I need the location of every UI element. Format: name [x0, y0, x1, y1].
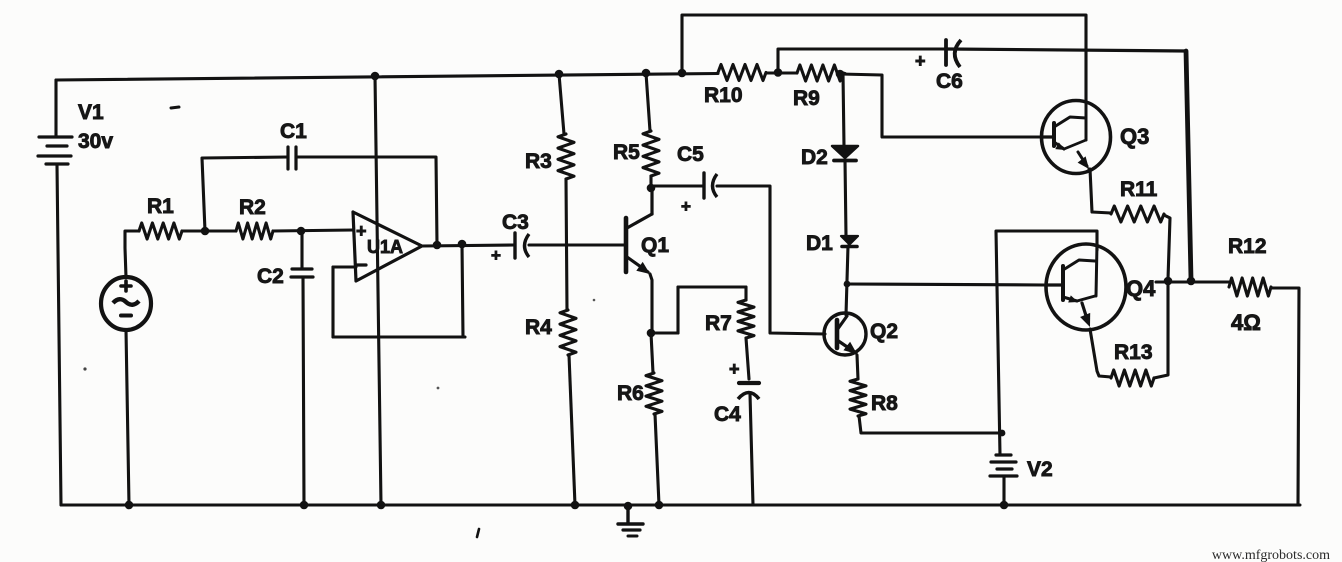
label C1 — [280, 120, 307, 143]
stray dash mark — [171, 107, 179, 108]
svg-text:R12: R12 — [1228, 235, 1267, 258]
capacitor C3 polarized — [515, 233, 529, 258]
junction V2 bottom rail — [1000, 501, 1009, 510]
label R7 — [705, 312, 732, 335]
label C3 — [502, 211, 529, 234]
wire vertical rail through opamp column — [375, 76, 381, 505]
wire Q2 emitter to R8 — [857, 355, 858, 379]
node junction R1/R2/C1 — [201, 227, 210, 236]
node D1-Q2 tap to Q4 base — [844, 281, 851, 288]
svg-text:C1: C1 — [280, 120, 307, 143]
wire C1 to output node — [296, 157, 437, 244]
label V2 — [1027, 458, 1053, 481]
resistor R12 — [1229, 278, 1271, 296]
wire tap to Q4 base — [847, 284, 1045, 285]
resistor R8 — [850, 379, 866, 416]
wire junction to R2 — [205, 229, 236, 232]
label C4 — [714, 403, 741, 426]
wire junction down to D2 — [843, 74, 844, 146]
battery V1 — [38, 137, 72, 164]
resistor R1 — [139, 223, 182, 239]
label C6 — [936, 70, 963, 93]
wire junction up to C1 — [202, 157, 288, 231]
wire left supply vertical lower — [57, 165, 61, 505]
junction source-bottom rail — [125, 501, 134, 510]
junction top rail opamp column — [371, 72, 380, 81]
wire top rail to R3 — [559, 74, 564, 134]
junction topmost line tap — [678, 69, 687, 78]
wire C4 to bottom rail — [750, 394, 753, 505]
node R8/V2 junction — [999, 430, 1006, 437]
wire R12 to right vertical — [1271, 288, 1299, 504]
label R13 — [1114, 341, 1153, 364]
wire source to bottom rail — [126, 330, 129, 505]
wire C3 to Q1 base — [529, 243, 624, 246]
wire R4 to bottom rail — [569, 355, 575, 505]
resistor R10 — [718, 65, 766, 81]
svg-text:+: + — [491, 246, 501, 265]
svg-text:R8: R8 — [871, 392, 898, 415]
wire C6 line left — [778, 49, 948, 72]
junction R4 bottom rail — [571, 501, 580, 510]
svg-text:Q2: Q2 — [870, 320, 898, 343]
junction top rail R3 column — [555, 70, 564, 79]
svg-text:R5: R5 — [613, 141, 640, 164]
node junction R2/C2 — [297, 227, 306, 236]
svg-text:30v: 30v — [78, 130, 113, 153]
svg-text:U1A: U1A — [367, 237, 403, 257]
junction R6 bottom rail — [655, 501, 664, 510]
wire R5 to collector node — [649, 176, 652, 186]
label C4 plus polarity — [729, 359, 740, 379]
junction C2-bottom rail — [300, 501, 309, 510]
svg-text:www.mfgrobots.com: www.mfgrobots.com — [1212, 548, 1330, 562]
label C2 — [257, 265, 284, 288]
wire topmost line — [682, 15, 1086, 102]
wire emitter node to R6 — [651, 333, 653, 373]
label R9 — [793, 87, 820, 110]
svg-text:C3: C3 — [502, 211, 529, 234]
wire V2 to Q4 collector — [996, 231, 1097, 455]
resistor R3 — [558, 134, 574, 179]
wire Q1 emitter down — [650, 274, 652, 331]
transistor Q3 — [1041, 101, 1111, 174]
wire right thick vertical — [1186, 51, 1191, 279]
wire top supply rail left segment — [56, 74, 718, 81]
node R11/R13 junction — [1164, 277, 1173, 286]
label R12 — [1228, 235, 1267, 258]
wire collector node to C5 — [651, 184, 703, 187]
wire bottom ground rail — [61, 504, 1300, 507]
wire top rail segment right of R9 — [843, 71, 845, 75]
resistor R9 — [797, 65, 843, 81]
wire top rail to R5 — [646, 73, 650, 131]
stray speck near R4 — [593, 299, 596, 302]
AC signal source VS — [101, 277, 151, 330]
wire from source to R1 — [125, 231, 139, 277]
wire R13 to node — [1154, 283, 1168, 378]
svg-text:R3: R3 — [525, 150, 552, 173]
label C5 plus polarity — [681, 197, 691, 216]
node junction R10/R9 C6 tap — [774, 68, 783, 77]
svg-text:C2: C2 — [257, 265, 284, 288]
junction ground stub — [624, 502, 633, 511]
label D2 — [801, 146, 828, 169]
wire V2 to bottom rail — [1002, 476, 1005, 505]
wire D1 to Q2 collector — [846, 246, 848, 315]
svg-text:C6: C6 — [936, 70, 963, 93]
svg-text:C5: C5 — [677, 143, 704, 166]
label C6 plus polarity — [915, 51, 926, 71]
wire R11 to node — [1164, 215, 1170, 279]
watermark www.mfgrobots.com — [1212, 548, 1330, 562]
stray speck mid — [437, 387, 440, 390]
node junction R9 right — [836, 70, 845, 79]
wire up to R7 line — [676, 287, 679, 333]
wire C2 to bottom rail — [303, 277, 304, 505]
label 30v value of V1 — [78, 130, 113, 153]
resistor R4 — [560, 310, 576, 355]
svg-text:R1: R1 — [147, 195, 174, 218]
node C1 junction on output — [433, 241, 442, 250]
label R4 — [525, 316, 552, 339]
junction bottom rail opamp column — [377, 501, 386, 510]
transistor Q4 — [1045, 244, 1126, 330]
battery V2 — [990, 455, 1017, 476]
node C6-line junction — [1187, 277, 1196, 286]
label R6 — [617, 382, 644, 405]
svg-text:R6: R6 — [617, 382, 644, 405]
label R3 — [525, 150, 552, 173]
op-amp U1A — [353, 212, 422, 281]
node Q1 emitter junction — [647, 329, 656, 338]
label Q3 — [1120, 124, 1149, 149]
resistor R2 — [236, 223, 273, 239]
wire feedback left vertical — [331, 267, 334, 337]
node Q1 collector — [647, 184, 656, 193]
transistor Q1 — [626, 188, 652, 274]
diode D1 — [841, 236, 858, 247]
capacitor C5 polarized — [704, 173, 717, 198]
wire C6 line right — [948, 49, 1186, 51]
svg-text:R2: R2 — [239, 196, 266, 219]
wire R7 to C4 — [746, 338, 749, 379]
wire junction down to C2 — [300, 231, 303, 269]
wire R9 junction to Q3 base path — [840, 74, 1041, 137]
label Q1 — [641, 234, 669, 257]
wire node to R12 — [1156, 280, 1229, 283]
wire R7 top lead — [744, 287, 747, 300]
label R1 — [147, 195, 174, 218]
label D1 — [806, 232, 833, 255]
wire top rail segment between R10 and R9 — [766, 71, 797, 74]
wire left supply vertical — [54, 80, 57, 136]
resistor R5 — [643, 131, 659, 176]
resistor R13 — [1111, 370, 1154, 386]
svg-text:D2: D2 — [801, 146, 828, 169]
capacitor C6 polarized — [946, 40, 961, 67]
wire R3 to R4 — [566, 179, 567, 310]
resistor R7 — [738, 300, 754, 338]
label Q2 — [870, 320, 898, 343]
svg-text:Q3: Q3 — [1120, 124, 1149, 149]
svg-text:V2: V2 — [1027, 458, 1053, 481]
node feedback junction on output — [458, 240, 467, 249]
wire feedback bottom — [333, 335, 465, 338]
svg-text:+: + — [356, 221, 367, 241]
ground symbol — [618, 506, 643, 536]
svg-text:D1: D1 — [806, 232, 833, 255]
capacitor C2 — [291, 269, 313, 277]
diode D2 — [832, 146, 858, 161]
svg-text:R4: R4 — [525, 316, 552, 339]
wire D2 to D1 — [845, 160, 846, 236]
svg-text:C4: C4 — [714, 403, 741, 426]
label R8 — [871, 392, 898, 415]
svg-text:R7: R7 — [705, 312, 732, 335]
svg-text:R11: R11 — [1120, 178, 1158, 201]
svg-text:+: + — [681, 197, 691, 216]
wire feedback right vertical — [462, 244, 463, 337]
wire R6 to bottom rail — [655, 414, 659, 505]
svg-text:Q1: Q1 — [641, 234, 669, 257]
wire C5 to Q2 base — [717, 186, 825, 334]
capacitor C1 — [288, 147, 296, 169]
label R2 — [239, 196, 266, 219]
stray speck left — [83, 367, 86, 370]
wire Q4 emitter to R13 — [1090, 329, 1111, 377]
wire emitter node right — [651, 331, 678, 334]
wire R8 to V2 top — [859, 416, 1002, 433]
junction top rail R5 column — [642, 69, 651, 78]
svg-text:R10: R10 — [704, 84, 743, 107]
wire R2 to opamp noninverting input — [273, 230, 353, 231]
label R5 — [613, 141, 640, 164]
wire to R7 top — [678, 285, 746, 288]
transistor Q2 — [824, 313, 866, 355]
svg-text:+: + — [915, 51, 926, 71]
wire inverting input feedback stub — [333, 265, 356, 268]
svg-text:Q4: Q4 — [1126, 276, 1156, 301]
capacitor C4 polarized — [738, 383, 759, 399]
svg-text:R13: R13 — [1114, 341, 1153, 364]
label R11 — [1120, 178, 1158, 201]
svg-text:+: + — [729, 359, 740, 379]
label R10 — [704, 84, 743, 107]
stray apostrophe mark — [477, 529, 479, 537]
wire opamp output — [422, 245, 514, 246]
label C5 — [677, 143, 704, 166]
svg-text:R9: R9 — [793, 87, 820, 110]
svg-text:V1: V1 — [78, 101, 104, 124]
svg-text:4Ω: 4Ω — [1231, 310, 1261, 335]
label 4 ohm value — [1231, 310, 1261, 335]
label V1 — [78, 101, 104, 124]
label C3 plus polarity — [491, 246, 501, 265]
wire R1 to junction — [182, 229, 205, 232]
resistor R6 — [646, 373, 662, 414]
label Q4 — [1126, 276, 1156, 301]
wire Q3 emitter to R11 — [1090, 169, 1111, 213]
resistor R11 — [1111, 206, 1164, 222]
